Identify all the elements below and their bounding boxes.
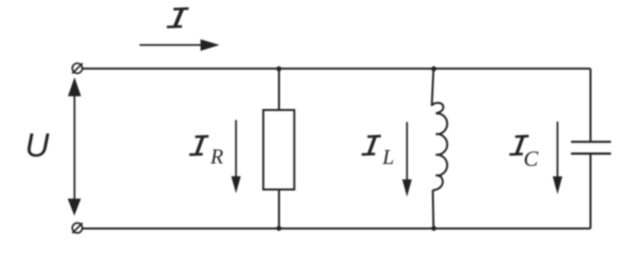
label I (top current) — [167, 9, 189, 27]
arrow U head bottom — [68, 199, 81, 216]
label I_C — [509, 136, 538, 171]
arrow I_R head — [231, 176, 241, 193]
terminal bottom-left — [72, 223, 82, 233]
wire capacitor to bottom rail — [590, 154, 592, 229]
resistor R body — [263, 110, 294, 190]
wire inductor top — [432, 69, 434, 106]
svg-text:C: C — [524, 146, 539, 171]
capacitor C bottom plate — [571, 153, 611, 155]
label I_L — [362, 136, 395, 169]
arrow U head top — [68, 77, 81, 96]
junction dot inductor bottom — [431, 226, 436, 231]
arrow I_L line — [406, 122, 408, 182]
arrow I line — [140, 44, 204, 46]
wire top rail — [83, 68, 591, 70]
inductor L coil — [432, 103, 447, 191]
svg-text:R: R — [210, 144, 224, 168]
junction dot resistor top — [276, 66, 281, 71]
arrow I head — [201, 39, 220, 51]
wire resistor bottom — [278, 190, 280, 229]
label I_R — [189, 136, 223, 168]
arrow U line — [74, 93, 76, 201]
wire resistor top — [278, 69, 280, 110]
terminal top-left — [72, 63, 82, 73]
arrow I_C line — [557, 122, 559, 179]
wire bottom rail — [83, 228, 591, 230]
arrow I_R line — [235, 120, 237, 179]
arrow I_L head — [402, 179, 412, 196]
svg-text:U: U — [25, 127, 50, 164]
junction dot resistor bottom — [276, 226, 281, 231]
wire inductor bottom — [432, 190, 435, 228]
capacitor C top plate — [571, 141, 611, 143]
svg-text:L: L — [382, 145, 395, 169]
arrow I_C head — [553, 176, 563, 194]
junction dot inductor top — [431, 66, 436, 71]
wire capacitor branch right side — [590, 69, 592, 142]
